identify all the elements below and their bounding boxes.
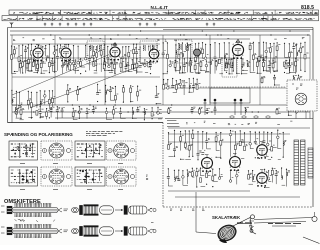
svg-text:SKALATRÆK: SKALATRÆK [212,215,241,220]
svg-text:N.L.&.IT: N.L.&.IT [151,5,169,10]
svg-text:SPÆNDING OG POLARISERING: SPÆNDING OG POLARISERING [4,132,73,137]
